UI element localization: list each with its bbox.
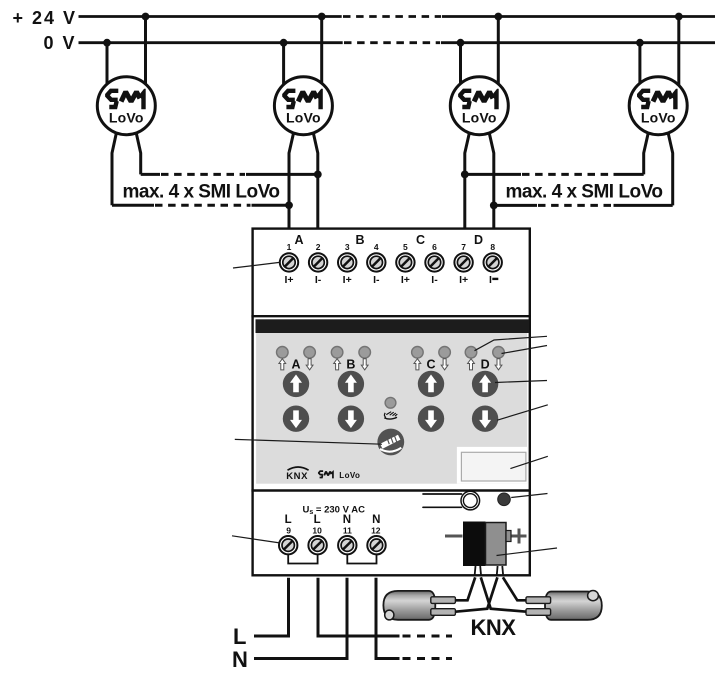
svg-text:B: B bbox=[355, 233, 364, 247]
hollow arrows and letter D bbox=[468, 359, 475, 370]
wire: right upper bus dashed bbox=[522, 173, 613, 176]
svg-text:10: 10 bbox=[312, 526, 322, 536]
wire: motor M1 bottom leads bbox=[112, 131, 117, 205]
KNX cable right wire ends bbox=[526, 597, 551, 604]
callout to KNX bus terminal bbox=[497, 548, 558, 556]
wire: motor M4 top leads bbox=[638, 43, 641, 90]
svg-text:N: N bbox=[343, 514, 351, 526]
wire: motor M2 top leads bbox=[282, 43, 285, 90]
LED A up bbox=[277, 347, 289, 359]
junction dot M1 right on +24V bbox=[142, 13, 150, 21]
LED C down bbox=[439, 347, 451, 359]
callout to LED D down bbox=[502, 346, 548, 354]
KNX cable right body bbox=[545, 592, 602, 620]
junction dot M4 right on +24V bbox=[675, 13, 683, 21]
KNX terminal legs bbox=[474, 566, 477, 575]
hollow arrows and letter A bbox=[279, 359, 286, 370]
svg-text:N: N bbox=[232, 647, 248, 672]
svg-text:KNX: KNX bbox=[471, 615, 517, 640]
bridge terminals 9-10 bbox=[288, 554, 317, 564]
wire: KNX bus left + bbox=[456, 577, 476, 600]
svg-text:N: N bbox=[372, 514, 380, 526]
panel notch (white) bbox=[457, 447, 527, 484]
svg-text:1: 1 bbox=[287, 242, 292, 252]
wire: motor M3 top leads bbox=[459, 43, 462, 90]
svg-text:+ 24 V: + 24 V bbox=[13, 8, 78, 28]
wire: motor M1 top leads bbox=[106, 43, 109, 90]
LED B up bbox=[331, 347, 343, 359]
terminal screw 5 bbox=[396, 253, 414, 271]
wire: N continuation dashed bbox=[403, 657, 453, 660]
svg-text:I+: I+ bbox=[343, 274, 352, 286]
programming pin (clip) bbox=[423, 491, 480, 510]
wire: left lower bus solid bbox=[112, 204, 154, 207]
programming LED bbox=[498, 493, 511, 506]
terminal screw 9 bbox=[279, 536, 297, 554]
wire: motor M4 bottom leads bbox=[644, 131, 649, 174]
button A down bbox=[283, 406, 309, 432]
device divider bottom bbox=[251, 489, 530, 491]
SMI motor M3 bbox=[450, 77, 508, 135]
panel gray face bbox=[256, 333, 527, 484]
junction dot M2 right lead / upper bus bbox=[314, 171, 322, 179]
wire: motor M2 bottom leads bbox=[289, 131, 294, 229]
SMI logo on panel bbox=[319, 470, 334, 478]
callout to LED D up bbox=[475, 336, 548, 350]
junction dot M2 left lead / lower bus bbox=[285, 201, 293, 209]
svg-text:12: 12 bbox=[371, 526, 381, 536]
junction dot M3 left on 0V bbox=[457, 39, 465, 47]
KNX bus terminal block (gray half) bbox=[486, 523, 507, 566]
bridge terminals 11-12 bbox=[347, 554, 376, 564]
svg-text:6: 6 bbox=[432, 242, 437, 252]
svg-text:I-: I- bbox=[431, 274, 438, 286]
KNX cable left cross-section bbox=[385, 610, 394, 620]
terminal screw 6 bbox=[425, 253, 443, 271]
button C up bbox=[418, 371, 444, 397]
junction dot M3 left lead / upper bus bbox=[461, 171, 469, 179]
svg-text:L: L bbox=[314, 514, 321, 526]
svg-text:D: D bbox=[481, 358, 490, 372]
LED B down bbox=[359, 347, 371, 359]
LED C up bbox=[412, 347, 424, 359]
svg-text:max. 4 x SMI LoVo: max. 4 x SMI LoVo bbox=[506, 181, 663, 202]
svg-text:A: A bbox=[291, 358, 300, 372]
svg-text:0 V: 0 V bbox=[44, 33, 77, 53]
button C down bbox=[418, 406, 444, 432]
terminal screw 8 bbox=[484, 253, 502, 271]
svg-text:3: 3 bbox=[345, 242, 350, 252]
svg-text:D: D bbox=[474, 233, 483, 247]
wire: left upper bus solid bbox=[141, 173, 160, 176]
terminal screw 2 bbox=[309, 253, 327, 271]
svg-text:I-: I- bbox=[373, 274, 380, 286]
callout to label plate bbox=[510, 456, 547, 468]
button D up bbox=[472, 371, 498, 397]
wire: right lower bus solid 2 bbox=[614, 204, 673, 207]
device divider top bbox=[251, 315, 530, 317]
wire: KNX bus right - crossing bbox=[481, 577, 527, 611]
svg-text:C: C bbox=[416, 233, 425, 247]
terminal screw 4 bbox=[367, 253, 385, 271]
wire: N continuation bbox=[376, 578, 400, 659]
wire: KNX bus left - crossing bbox=[456, 577, 498, 611]
SMI motor M2 bbox=[274, 77, 332, 135]
svg-text:I+: I+ bbox=[459, 274, 468, 286]
LED D down bbox=[493, 347, 505, 359]
KNX cable left wire ends bbox=[431, 597, 456, 604]
manual mode hand icon small bbox=[384, 412, 397, 419]
wire: N feed bbox=[254, 578, 347, 659]
terminal screw 1 bbox=[280, 253, 298, 271]
junction dot M3 right on +24V bbox=[494, 13, 502, 21]
wire: left lower bus dashed bbox=[155, 204, 251, 207]
callout to programming LED bbox=[511, 494, 547, 498]
wire: left upper bus solid 2 bbox=[246, 173, 318, 176]
callout to button D up bbox=[495, 381, 547, 383]
junction dot M2 right on +24V bbox=[318, 13, 326, 21]
KNX bus terminal plus mark bbox=[512, 535, 527, 538]
wire: left upper bus dashed bbox=[161, 173, 245, 176]
wire: 0V rail solid left bbox=[79, 41, 343, 44]
terminal screw 11 bbox=[338, 536, 356, 554]
KNX cable left body bbox=[383, 591, 435, 620]
callout to button D down bbox=[497, 405, 548, 420]
svg-text:9: 9 bbox=[286, 526, 291, 536]
svg-text:I-: I- bbox=[315, 274, 322, 286]
device label plate bbox=[461, 452, 526, 481]
wire: KNX bus right + bbox=[503, 577, 527, 600]
svg-text:4: 4 bbox=[374, 242, 379, 252]
wire: L continuation dashed bbox=[403, 635, 453, 638]
KNX cable right cross-section bbox=[588, 591, 599, 601]
manual mode LED bbox=[385, 397, 396, 408]
wire: L continuation bbox=[318, 578, 400, 636]
actuator device body bbox=[253, 229, 530, 576]
button D down bbox=[472, 406, 498, 432]
panel black header bar bbox=[256, 319, 530, 333]
SMI motor M1 bbox=[97, 77, 155, 135]
callout to manual button bbox=[235, 439, 382, 444]
junction dot M3 right lead / lower bus bbox=[490, 202, 498, 210]
button B down bbox=[338, 406, 364, 432]
wire: right lower bus solid bbox=[494, 204, 537, 207]
svg-text:I: I bbox=[489, 274, 492, 286]
KNX bus terminal block minus mark bbox=[445, 535, 463, 538]
svg-text:B: B bbox=[346, 358, 355, 372]
wire: +24V rail dashed middle bbox=[343, 15, 441, 18]
wire: 0V rail solid right bbox=[441, 41, 715, 44]
junction dot M4 left on 0V bbox=[636, 39, 644, 47]
svg-text:L: L bbox=[233, 624, 246, 649]
svg-text:max. 4 x SMI LoVo: max. 4 x SMI LoVo bbox=[123, 181, 280, 202]
junction dot M1 left on 0V bbox=[103, 39, 111, 47]
terminal screw 12 bbox=[367, 536, 385, 554]
hollow arrows and letter B bbox=[334, 359, 341, 370]
svg-text:8: 8 bbox=[490, 242, 495, 252]
wire: right upper bus solid bbox=[465, 173, 521, 176]
wire: left lower bus solid 2 bbox=[252, 204, 290, 207]
svg-text:I+: I+ bbox=[401, 274, 410, 286]
KNX logo on panel bbox=[286, 467, 308, 482]
svg-text:I+: I+ bbox=[284, 274, 293, 286]
LED D up bbox=[465, 347, 477, 359]
svg-text:C: C bbox=[426, 358, 435, 372]
KNX bus terminal block (black half) bbox=[463, 522, 486, 567]
wire: right upper bus solid 2 bbox=[614, 173, 644, 176]
wire: right lower bus dashed bbox=[538, 204, 613, 207]
terminal screw 7 bbox=[454, 253, 472, 271]
SMI motor M4 bbox=[629, 77, 687, 135]
svg-text:A: A bbox=[294, 233, 303, 247]
svg-text:L: L bbox=[285, 514, 292, 526]
svg-text:LoVo: LoVo bbox=[339, 471, 360, 480]
callout to terminal 1 bbox=[233, 262, 280, 268]
wire: L feed bbox=[254, 578, 289, 636]
wire: motor M3 bottom leads bbox=[465, 131, 470, 229]
hollow arrows and letter C bbox=[414, 359, 421, 370]
junction dot M2 left on 0V bbox=[280, 39, 288, 47]
wire: +24V rail solid right bbox=[442, 15, 715, 18]
button A up bbox=[283, 371, 309, 397]
svg-text:7: 7 bbox=[461, 242, 466, 252]
manual operation button (hand) bbox=[377, 429, 404, 456]
KNX bus terminal notch bbox=[506, 531, 511, 542]
svg-text:2: 2 bbox=[316, 242, 321, 252]
wire: +24V rail solid left bbox=[79, 15, 342, 18]
svg-text:5: 5 bbox=[403, 242, 408, 252]
svg-text:KNX: KNX bbox=[286, 471, 308, 482]
callout to terminal 9 bbox=[232, 536, 280, 543]
terminal screw 10 bbox=[308, 536, 326, 554]
LED A down bbox=[304, 347, 316, 359]
terminal screw 3 bbox=[338, 253, 356, 271]
svg-text:11: 11 bbox=[343, 526, 352, 536]
button B up bbox=[338, 371, 364, 397]
wire: 0V rail dashed middle bbox=[344, 41, 440, 44]
